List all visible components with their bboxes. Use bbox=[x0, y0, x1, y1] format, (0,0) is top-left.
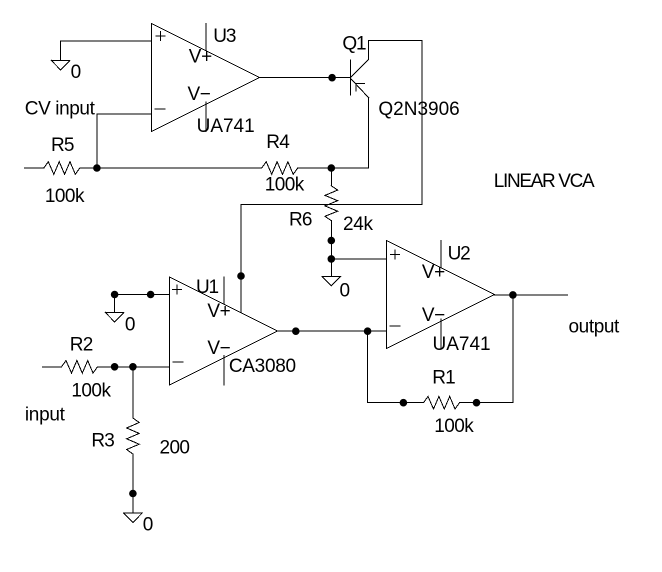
svg-text:LINEAR VCA: LINEAR VCA bbox=[494, 171, 595, 192]
svg-text:CA3080: CA3080 bbox=[229, 356, 296, 377]
svg-text:input: input bbox=[25, 404, 66, 425]
svg-text:V+: V+ bbox=[422, 262, 445, 283]
svg-text:UA741: UA741 bbox=[197, 116, 255, 137]
svg-text:output: output bbox=[569, 317, 621, 338]
svg-text:V−: V− bbox=[207, 338, 230, 359]
svg-text:R5: R5 bbox=[51, 135, 74, 156]
svg-text:R3: R3 bbox=[91, 431, 114, 452]
svg-text:U3: U3 bbox=[213, 26, 236, 47]
svg-text:R2: R2 bbox=[70, 335, 93, 356]
svg-text:0: 0 bbox=[340, 280, 351, 301]
svg-text:CV input: CV input bbox=[25, 98, 96, 119]
svg-text:100k: 100k bbox=[45, 186, 85, 207]
svg-text:200: 200 bbox=[160, 438, 190, 459]
svg-text:R1: R1 bbox=[432, 368, 455, 389]
svg-text:100k: 100k bbox=[434, 416, 474, 437]
svg-text:V+: V+ bbox=[189, 47, 212, 68]
svg-text:100k: 100k bbox=[71, 380, 111, 401]
svg-text:UA741: UA741 bbox=[433, 334, 491, 355]
svg-text:0: 0 bbox=[71, 62, 82, 83]
svg-text:100k: 100k bbox=[265, 174, 305, 195]
svg-text:24k: 24k bbox=[343, 214, 374, 235]
svg-text:0: 0 bbox=[125, 315, 136, 336]
svg-text:Q2N3906: Q2N3906 bbox=[378, 99, 459, 120]
svg-text:V+: V+ bbox=[207, 301, 230, 322]
svg-text:0: 0 bbox=[143, 515, 154, 536]
svg-text:V−: V− bbox=[422, 305, 445, 326]
svg-text:Q1: Q1 bbox=[342, 34, 366, 55]
svg-text:V−: V− bbox=[188, 84, 211, 105]
svg-text:R6: R6 bbox=[289, 210, 312, 231]
svg-text:U1: U1 bbox=[196, 277, 219, 298]
svg-text:U2: U2 bbox=[448, 243, 471, 264]
svg-text:R4: R4 bbox=[266, 132, 290, 153]
